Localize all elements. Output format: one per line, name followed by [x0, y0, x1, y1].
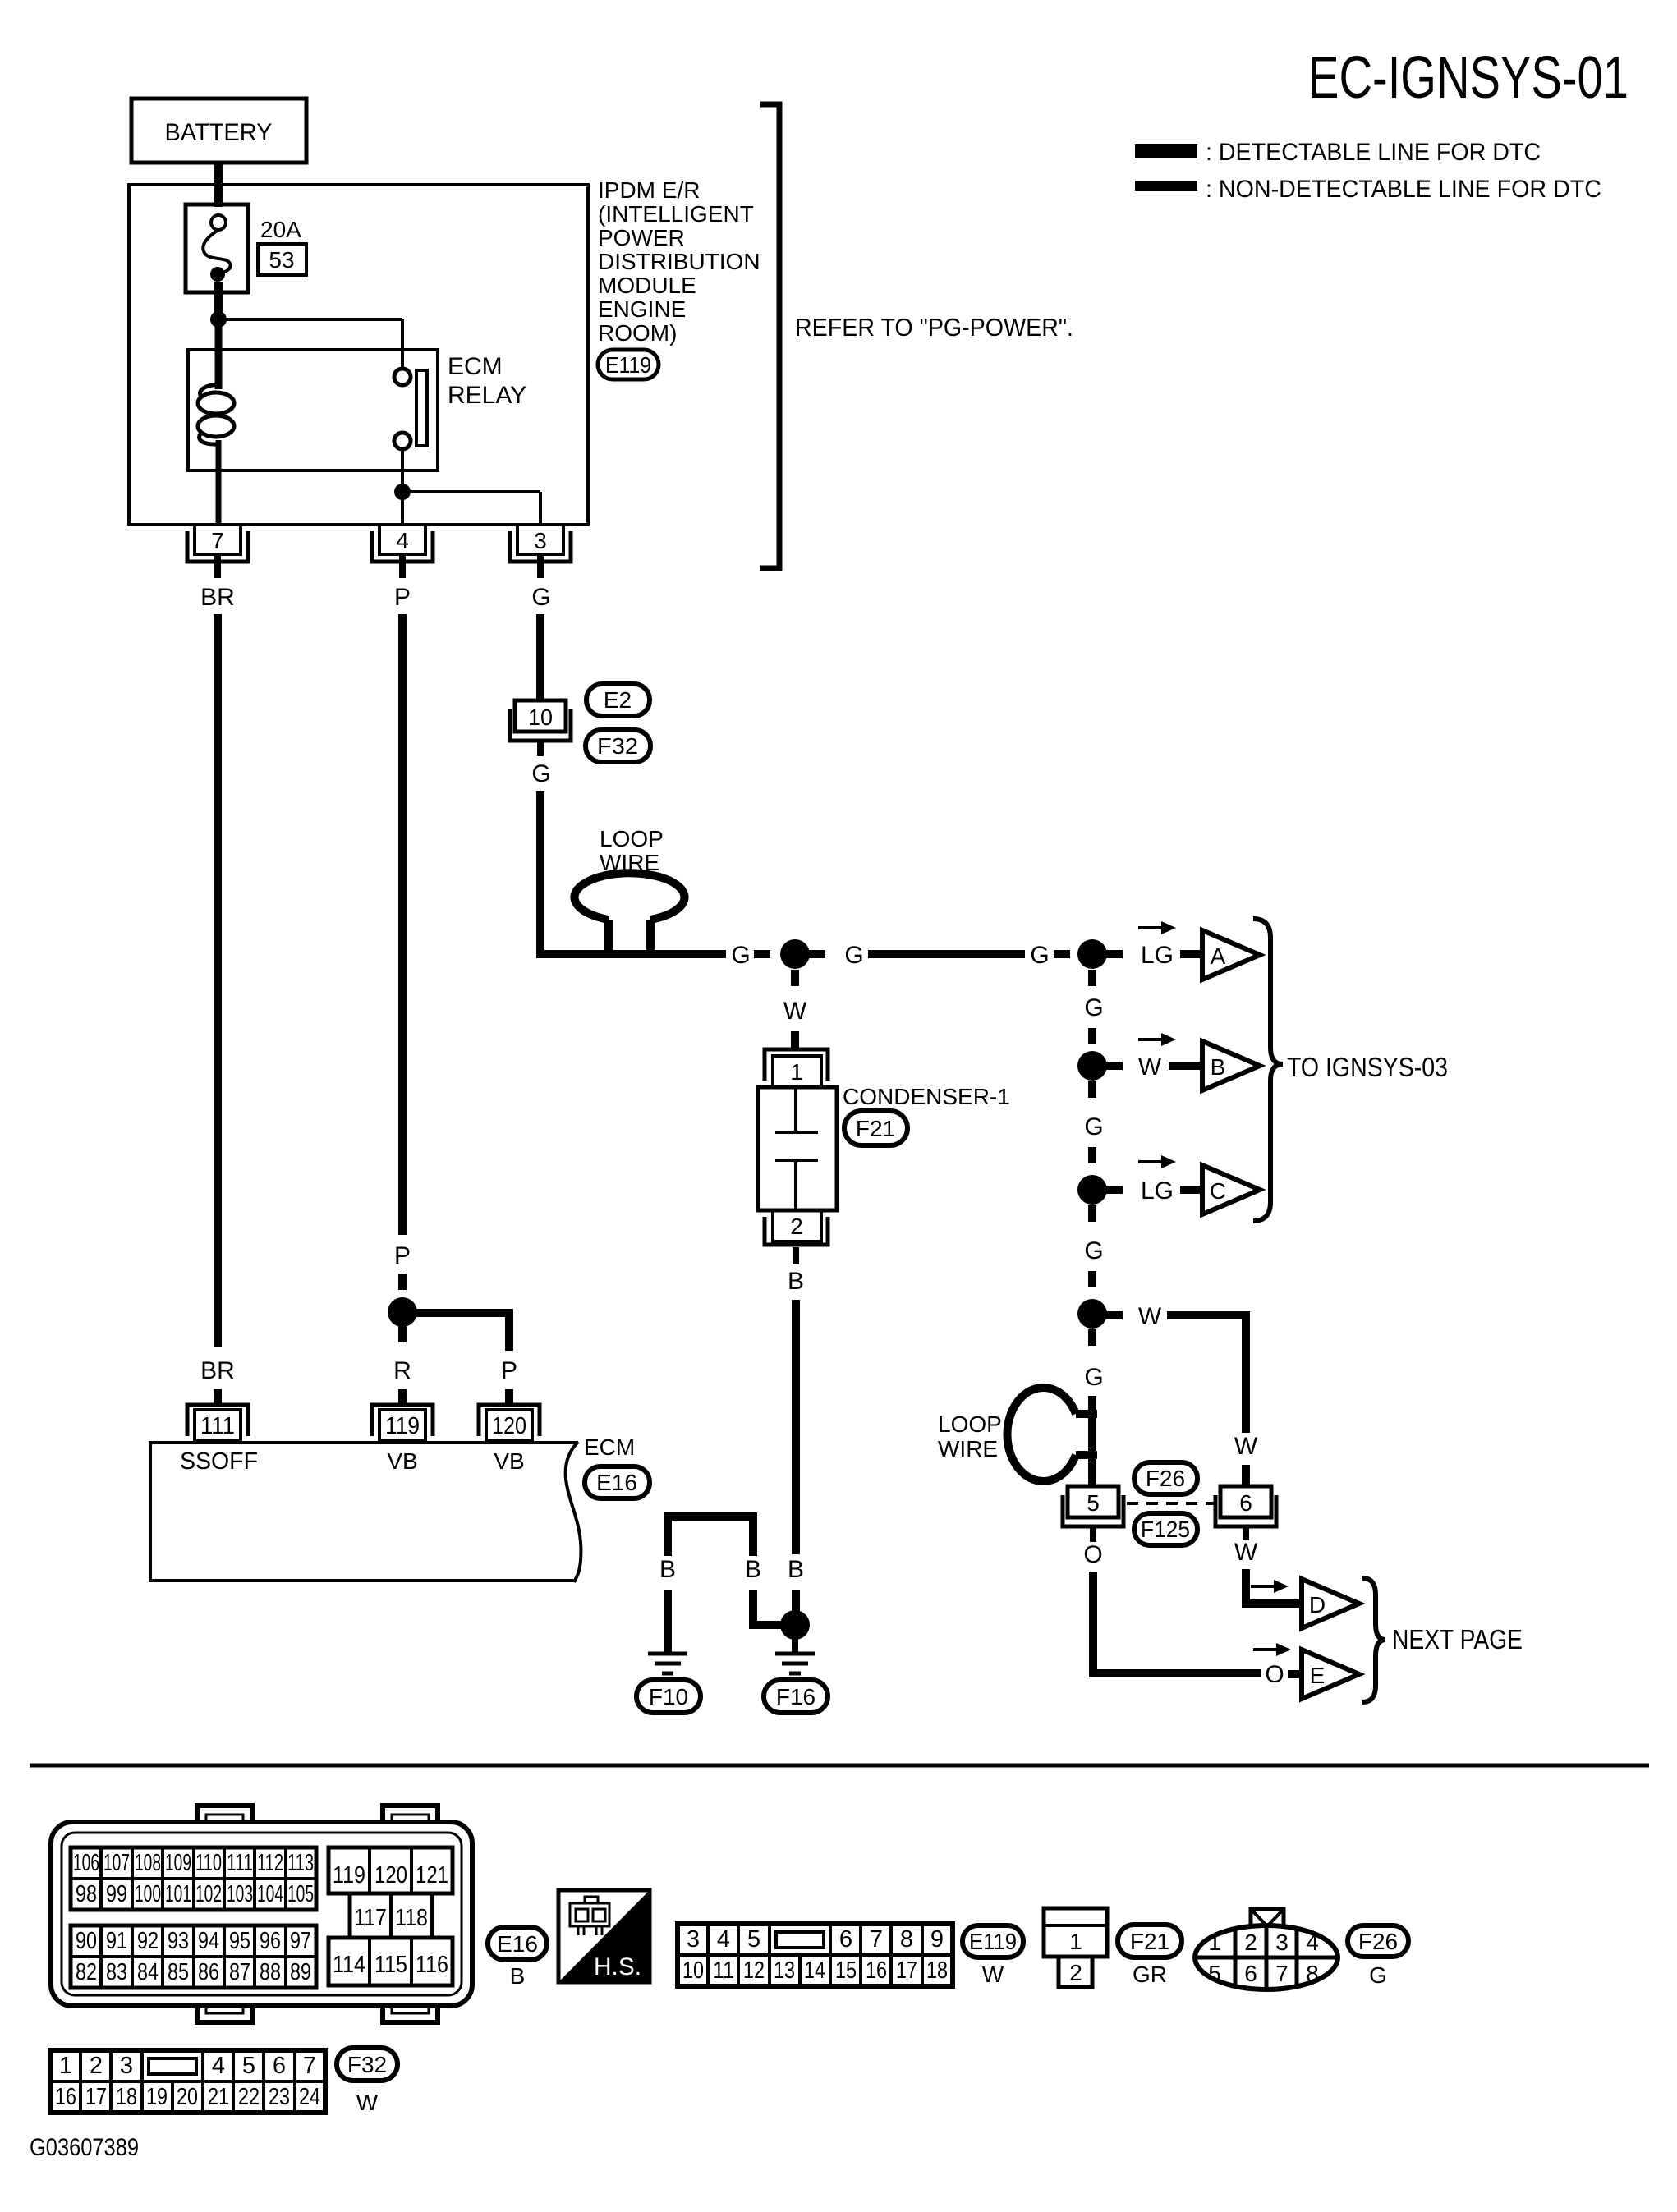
svg-text:B: B	[788, 1556, 804, 1583]
svg-text:F16: F16	[776, 1684, 816, 1709]
svg-text:4: 4	[396, 528, 409, 553]
svg-text:13: 13	[774, 1957, 795, 1984]
svg-text:101: 101	[165, 1881, 191, 1907]
svg-text:2: 2	[90, 2053, 103, 2079]
svg-text:P: P	[394, 584, 411, 611]
svg-text:NEXT PAGE: NEXT PAGE	[1392, 1624, 1523, 1654]
svg-text:110: 110	[195, 1850, 222, 1876]
svg-text:7: 7	[303, 2053, 316, 2079]
svg-text:88: 88	[260, 1959, 281, 1985]
svg-text:12: 12	[743, 1957, 765, 1984]
svg-text:P: P	[394, 1242, 411, 1269]
svg-text:1: 1	[1069, 1929, 1082, 1954]
svg-text:: NON-DETECTABLE LINE FOR DTC: : NON-DETECTABLE LINE FOR DTC	[1206, 176, 1601, 203]
svg-text:DISTRIBUTION: DISTRIBUTION	[598, 249, 760, 274]
svg-text:W: W	[1138, 1053, 1162, 1081]
svg-text:BATTERY: BATTERY	[165, 119, 273, 146]
svg-text:84: 84	[137, 1959, 159, 1985]
svg-text:100: 100	[135, 1881, 161, 1907]
svg-text:7: 7	[870, 1926, 883, 1953]
svg-text:B: B	[788, 1268, 804, 1295]
svg-text:112: 112	[257, 1850, 283, 1876]
svg-text:99: 99	[106, 1881, 127, 1907]
svg-text:3: 3	[120, 2053, 133, 2079]
svg-text:111: 111	[200, 1413, 235, 1439]
svg-text:LOOP: LOOP	[600, 826, 664, 851]
svg-text:1: 1	[790, 1059, 803, 1085]
svg-text:107: 107	[103, 1850, 130, 1876]
svg-text:118: 118	[395, 1905, 428, 1931]
svg-text:6: 6	[839, 1926, 852, 1953]
svg-text:20A: 20A	[260, 217, 301, 242]
svg-text:16: 16	[866, 1957, 887, 1984]
svg-text:90: 90	[76, 1928, 97, 1954]
svg-text:ECM: ECM	[448, 353, 503, 380]
svg-text:5: 5	[1087, 1490, 1100, 1516]
svg-text:LG: LG	[1141, 1177, 1174, 1205]
svg-text:6: 6	[1244, 1961, 1257, 1986]
svg-text:5: 5	[242, 2053, 255, 2079]
svg-text:G: G	[1084, 1364, 1103, 1391]
svg-text:120: 120	[492, 1413, 526, 1439]
svg-text:F10: F10	[649, 1684, 688, 1709]
svg-text:W: W	[356, 2090, 379, 2115]
svg-text:G: G	[1084, 994, 1103, 1021]
svg-text:9: 9	[930, 1926, 944, 1953]
svg-text:4: 4	[212, 2053, 225, 2079]
svg-text:F125: F125	[1141, 1517, 1190, 1542]
svg-text:VB: VB	[387, 1448, 417, 1474]
svg-text:(INTELLIGENT: (INTELLIGENT	[598, 201, 754, 227]
svg-text:TO IGNSYS-03: TO IGNSYS-03	[1287, 1052, 1448, 1082]
svg-text:O: O	[1083, 1541, 1102, 1568]
svg-text:G03607389: G03607389	[30, 2134, 139, 2161]
svg-text:: DETECTABLE LINE FOR DTC: : DETECTABLE LINE FOR DTC	[1206, 139, 1541, 166]
svg-text:LOOP: LOOP	[938, 1411, 1002, 1437]
svg-text:G: G	[731, 942, 750, 969]
svg-text:2: 2	[1244, 1930, 1257, 1955]
svg-text:B: B	[745, 1556, 761, 1583]
svg-text:W: W	[783, 998, 807, 1025]
svg-text:115: 115	[374, 1952, 407, 1978]
svg-text:2: 2	[1069, 1960, 1082, 1985]
svg-text:121: 121	[416, 1862, 448, 1888]
svg-text:23: 23	[269, 2084, 290, 2110]
svg-text:105: 105	[287, 1881, 314, 1907]
svg-text:92: 92	[137, 1928, 159, 1954]
svg-text:GR: GR	[1133, 1962, 1167, 1987]
svg-text:E2: E2	[604, 687, 632, 713]
svg-text:89: 89	[290, 1959, 311, 1985]
svg-text:BR: BR	[200, 584, 235, 611]
svg-text:EC-IGNSYS-01: EC-IGNSYS-01	[1308, 45, 1629, 111]
svg-text:RELAY: RELAY	[448, 382, 526, 409]
svg-text:114: 114	[333, 1952, 365, 1978]
svg-text:8: 8	[900, 1926, 913, 1953]
svg-text:5: 5	[747, 1926, 760, 1953]
svg-text:116: 116	[416, 1952, 448, 1978]
svg-text:O: O	[1265, 1661, 1284, 1688]
svg-text:96: 96	[260, 1928, 281, 1954]
svg-text:17: 17	[896, 1957, 917, 1984]
svg-text:G: G	[1084, 1237, 1103, 1264]
svg-text:E119: E119	[969, 1929, 1017, 1954]
svg-text:POWER: POWER	[598, 225, 685, 250]
svg-text:17: 17	[85, 2084, 107, 2110]
svg-text:W: W	[1138, 1303, 1162, 1330]
svg-text:53: 53	[269, 247, 294, 273]
svg-text:103: 103	[227, 1881, 253, 1907]
svg-text:R: R	[393, 1357, 411, 1384]
svg-text:ECM: ECM	[584, 1434, 635, 1460]
svg-text:6: 6	[273, 2053, 286, 2079]
svg-text:G: G	[844, 942, 863, 969]
svg-text:119: 119	[385, 1413, 420, 1439]
svg-text:111: 111	[227, 1850, 253, 1876]
svg-text:F26: F26	[1358, 1929, 1398, 1954]
svg-text:117: 117	[354, 1905, 387, 1931]
svg-text:16: 16	[55, 2084, 76, 2110]
svg-text:8: 8	[1306, 1961, 1319, 1986]
svg-text:87: 87	[229, 1959, 250, 1985]
svg-text:82: 82	[76, 1959, 97, 1985]
svg-text:ENGINE: ENGINE	[598, 296, 686, 322]
svg-text:G: G	[1369, 1962, 1387, 1988]
svg-text:10: 10	[528, 704, 553, 730]
svg-text:4: 4	[717, 1926, 730, 1953]
svg-text:B: B	[510, 1963, 526, 1989]
svg-text:W: W	[982, 1962, 1004, 1987]
svg-text:B: B	[1211, 1054, 1226, 1080]
svg-text:5: 5	[1208, 1961, 1221, 1986]
svg-text:REFER TO "PG-POWER".: REFER TO "PG-POWER".	[795, 313, 1073, 342]
svg-text:113: 113	[287, 1850, 314, 1876]
svg-text:4: 4	[1306, 1930, 1319, 1955]
svg-text:BR: BR	[200, 1357, 235, 1384]
svg-text:10: 10	[682, 1957, 704, 1984]
svg-text:F21: F21	[1130, 1929, 1169, 1954]
svg-text:18: 18	[116, 2084, 137, 2110]
svg-text:18: 18	[926, 1957, 948, 1984]
svg-text:WIRE: WIRE	[938, 1436, 998, 1462]
svg-text:7: 7	[211, 528, 224, 553]
svg-text:20: 20	[177, 2084, 198, 2110]
svg-text:G: G	[1030, 942, 1049, 969]
svg-text:21: 21	[208, 2084, 229, 2110]
svg-text:F32: F32	[347, 2052, 387, 2077]
svg-text:119: 119	[333, 1862, 365, 1888]
svg-text:22: 22	[238, 2084, 260, 2110]
svg-text:IPDM E/R: IPDM E/R	[598, 177, 700, 203]
svg-text:VB: VB	[494, 1448, 524, 1474]
svg-text:WIRE: WIRE	[600, 850, 659, 875]
svg-text:CONDENSER-1: CONDENSER-1	[843, 1084, 1010, 1109]
svg-text:1: 1	[59, 2053, 72, 2079]
svg-text:3: 3	[534, 528, 547, 553]
svg-text:A: A	[1211, 943, 1226, 969]
svg-text:2: 2	[790, 1214, 803, 1239]
svg-text:SSOFF: SSOFF	[180, 1448, 258, 1475]
svg-text:102: 102	[195, 1881, 222, 1907]
svg-text:6: 6	[1239, 1490, 1252, 1516]
svg-text:83: 83	[106, 1959, 127, 1985]
svg-text:3: 3	[687, 1926, 700, 1953]
svg-text:7: 7	[1275, 1961, 1289, 1986]
svg-text:91: 91	[106, 1928, 127, 1954]
svg-text:14: 14	[804, 1957, 825, 1984]
svg-text:1: 1	[1208, 1930, 1221, 1955]
svg-text:15: 15	[835, 1957, 857, 1984]
svg-text:86: 86	[198, 1959, 219, 1985]
svg-text:94: 94	[198, 1928, 219, 1954]
svg-text:109: 109	[165, 1850, 191, 1876]
svg-text:LG: LG	[1141, 942, 1174, 969]
svg-text:E: E	[1310, 1663, 1326, 1688]
svg-text:85: 85	[168, 1959, 189, 1985]
svg-text:93: 93	[168, 1928, 189, 1954]
svg-text:ROOM): ROOM)	[598, 320, 677, 346]
svg-text:W: W	[1234, 1539, 1258, 1566]
svg-text:120: 120	[374, 1862, 407, 1888]
svg-text:24: 24	[299, 2084, 320, 2110]
svg-text:11: 11	[713, 1957, 734, 1984]
svg-text:97: 97	[290, 1928, 311, 1954]
svg-text:E16: E16	[596, 1470, 637, 1495]
svg-text:D: D	[1309, 1592, 1326, 1618]
svg-text:19: 19	[146, 2084, 168, 2110]
svg-text:C: C	[1210, 1178, 1226, 1204]
svg-text:W: W	[1234, 1433, 1258, 1460]
svg-text:E119: E119	[605, 352, 651, 378]
svg-text:G: G	[1084, 1113, 1103, 1140]
svg-text:106: 106	[73, 1850, 99, 1876]
svg-text:F32: F32	[597, 733, 638, 759]
svg-text:108: 108	[135, 1850, 161, 1876]
svg-text:F21: F21	[856, 1116, 895, 1141]
svg-text:B: B	[659, 1556, 676, 1583]
svg-text:98: 98	[76, 1881, 97, 1907]
svg-text:H.S.: H.S.	[594, 1953, 641, 1980]
svg-text:3: 3	[1275, 1930, 1289, 1955]
svg-text:G: G	[531, 584, 550, 611]
svg-text:95: 95	[229, 1928, 250, 1954]
svg-text:F26: F26	[1146, 1466, 1185, 1491]
svg-text:E16: E16	[497, 1931, 538, 1957]
svg-text:104: 104	[257, 1881, 283, 1907]
svg-text:G: G	[531, 760, 550, 787]
svg-text:P: P	[501, 1357, 517, 1384]
svg-text:MODULE: MODULE	[598, 273, 696, 298]
